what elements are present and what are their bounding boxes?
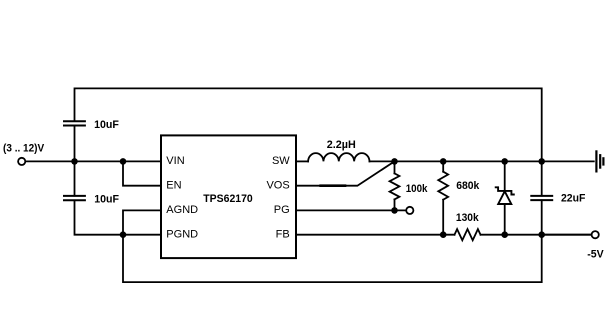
svg-text:10uF: 10uF <box>94 194 119 206</box>
node junction dot output line <box>538 231 545 238</box>
node junction dot GND rail / C3 top <box>538 158 545 165</box>
wire bottom return rail PGND to output <box>123 235 542 282</box>
node junction dot diode bottom <box>501 231 508 238</box>
node junction dot VIN/C1 <box>71 158 78 165</box>
svg-text:2.2µH: 2.2µH <box>327 139 356 151</box>
capacitor C3 22uF <box>531 195 552 197</box>
wire C2 bottom to PGND line <box>75 200 124 234</box>
svg-text:PG: PG <box>274 204 290 216</box>
wire diode anode to FB line <box>504 204 506 235</box>
wire C3 top stub <box>541 161 543 195</box>
wire C1 bottom to VIN line <box>74 126 76 162</box>
node junction dot diode top <box>501 158 508 165</box>
wire 680k bottom to FB line <box>442 200 444 235</box>
resistor R1 100k <box>390 173 400 199</box>
svg-text:-5V: -5V <box>587 249 604 261</box>
svg-text:TPS62170: TPS62170 <box>203 193 252 205</box>
svg-text:22uF: 22uF <box>561 193 586 205</box>
svg-text:VOS: VOS <box>266 180 289 192</box>
wire C3 bottom to FB line <box>541 200 543 234</box>
wire SW node to R1 top <box>394 161 396 173</box>
wire R1 bottom to PG line <box>394 199 396 210</box>
node junction dot PG <box>391 207 398 214</box>
diode D1 zener cathode to GND rail <box>504 161 506 191</box>
diode D1 cathode bar with zener hooks <box>496 187 514 194</box>
op-amp U1 TPS62170 IC body <box>161 135 296 258</box>
svg-text:130k: 130k <box>456 212 480 224</box>
ground <box>595 151 597 171</box>
wire VOS stub and diagonal to SW node <box>296 161 395 185</box>
svg-text:680k: 680k <box>456 180 480 192</box>
svg-text:EN: EN <box>166 180 181 192</box>
svg-text:PGND: PGND <box>166 229 198 241</box>
node PG output terminal <box>406 207 413 214</box>
wire output to -5V terminal <box>542 234 592 236</box>
svg-text:FB: FB <box>276 229 290 241</box>
wire FB stub <box>296 234 455 236</box>
node -5V output terminal <box>592 231 599 238</box>
diode D1 triangle <box>498 191 511 204</box>
wire EN branch <box>123 161 161 185</box>
resistor R2 680k <box>438 172 448 200</box>
wire FB line after 130k <box>481 234 592 236</box>
wire PGND to IC <box>123 234 161 236</box>
wire PG line <box>296 209 406 211</box>
svg-text:(3 .. 12)V: (3 .. 12)V <box>3 143 45 155</box>
node junction dot 680k top <box>440 158 447 165</box>
wire VOS stub thick overlap segment <box>321 184 345 187</box>
svg-text:10uF: 10uF <box>94 119 119 131</box>
wire VIN input to IC <box>25 160 161 162</box>
wire 680k top stub <box>442 161 444 171</box>
wire top output rail to ground <box>395 160 594 162</box>
node junction dot AGND/PGND <box>120 231 127 238</box>
wire top ground loop <box>75 88 542 161</box>
svg-text:AGND: AGND <box>166 204 198 216</box>
node VIN input terminal <box>18 158 25 165</box>
svg-text:SW: SW <box>272 155 290 167</box>
capacitor C1 10uF (input, VIN to GND loop) <box>64 120 85 122</box>
svg-text:100k: 100k <box>406 183 429 195</box>
svg-text:VIN: VIN <box>166 155 184 167</box>
wire inductor to SW node <box>370 160 395 162</box>
node junction dot VIN/EN <box>120 158 127 165</box>
capacitor C2 10uF (VIN to PGND) <box>74 161 76 195</box>
wire AGND branch <box>123 210 161 234</box>
inductor L1 2.2uH <box>308 153 369 161</box>
resistor R3 130k <box>455 229 481 240</box>
wire SW stub <box>296 160 308 162</box>
node junction dot 680k bottom <box>440 231 447 238</box>
node junction dot SW node <box>391 158 398 165</box>
